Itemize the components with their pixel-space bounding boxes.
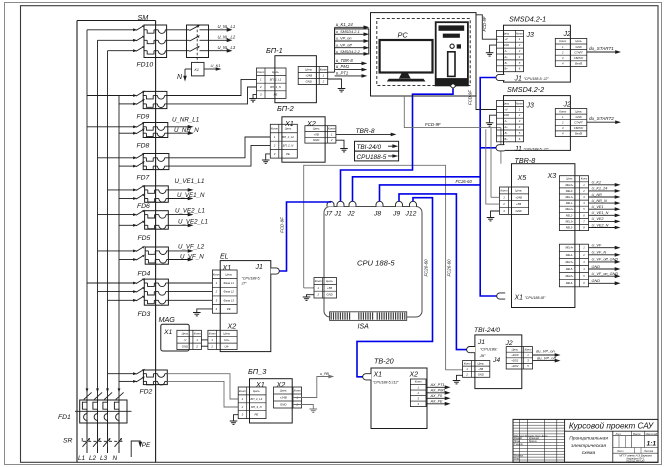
- BP-1 output table X2: [298, 67, 328, 85]
- wire du_START1: [587, 51, 617, 53]
- wire FD9 to BP-1 N: [167, 87, 257, 104]
- svg-text:Цепь: Цепь: [477, 361, 484, 365]
- svg-text:Цепь: Цепь: [225, 272, 232, 276]
- CPU GND ground: [307, 295, 315, 297]
- wire FD7 to BP-2 N: [169, 145, 270, 166]
- cable PC to TBR-8: [404, 96, 491, 197]
- svg-text:TBI-24/0: TBI-24/0: [474, 327, 500, 334]
- svg-text:U_VF_on_GND: U_VF_on_GND: [592, 272, 619, 276]
- wire FD3 L1 to EL: [168, 282, 212, 284]
- wire +5V net: [304, 165, 463, 369]
- signal u_PM1: [335, 69, 364, 71]
- svg-text:Конт: Конт: [516, 101, 524, 105]
- CPU connector J12: [410, 201, 417, 206]
- svg-text:u_SMSD4.2-1: u_SMSD4.2-1: [336, 30, 360, 34]
- svg-text:Конт: Конт: [257, 70, 265, 74]
- svg-text:REL2+: REL2+: [565, 207, 573, 211]
- wire U_NL_L2: [209, 39, 229, 41]
- svg-text:REL3+: REL3+: [565, 219, 573, 223]
- svg-text:GND: GND: [576, 115, 582, 119]
- svg-text:Цепь: Цепь: [503, 31, 510, 35]
- bus N: [118, 96, 120, 454]
- BP_3 PE ground: [234, 415, 239, 421]
- bus L1: [86, 30, 88, 453]
- svg-text:схема: схема: [582, 451, 596, 456]
- svg-text:FD3: FD3: [138, 311, 151, 318]
- svg-text:U_NR: U_NR: [592, 193, 603, 197]
- reference box CPU188-5: [355, 151, 399, 161]
- disconnect switches at FD inputs: [87, 29, 134, 31]
- svg-text:СБРОС: СБРОС: [574, 126, 584, 130]
- svg-text:X1: X1: [514, 295, 524, 302]
- svg-text:Масштаб: Масштаб: [646, 433, 658, 436]
- EL connector J1: [271, 268, 280, 274]
- svg-text:AX_F0: AX_F0: [430, 394, 443, 398]
- TB-20 connector X1: [363, 374, 371, 380]
- svg-text:TBR-8: TBR-8: [356, 128, 375, 135]
- svg-text:U_NL_L2: U_NL_L2: [218, 35, 236, 40]
- svg-text:U_K1_24: U_K1_24: [592, 187, 608, 191]
- svg-text:FC20-60: FC20-60: [424, 259, 429, 277]
- wire U_VF: [589, 247, 617, 249]
- svg-text:Конт: Конт: [294, 389, 302, 393]
- svg-text:PE: PE: [274, 93, 278, 97]
- svg-text:FD7: FD7: [137, 175, 150, 182]
- svg-text:Лит.: Лит.: [615, 433, 622, 436]
- wire U_K1: [589, 184, 617, 186]
- svg-text:u_PB: u_PB: [320, 372, 329, 376]
- svg-text:FC26-60: FC26-60: [447, 259, 452, 277]
- fuse block FD5: [145, 211, 169, 230]
- svg-text:+DO2: +DO2: [511, 364, 519, 368]
- svg-text:Фаза L3: Фаза L3: [224, 298, 235, 302]
- svg-text:REL1+: REL1+: [565, 195, 573, 199]
- svg-text:CPU188-5: CPU188-5: [357, 154, 387, 161]
- svg-text:GND: GND: [515, 209, 521, 213]
- BP-2 GND ground: [336, 140, 344, 148]
- svg-text:FCD-9F: FCD-9F: [425, 122, 441, 127]
- title right cells: [613, 435, 658, 437]
- wire +5V to TBR-8 arrow: [336, 133, 393, 135]
- wire U_VE1: [589, 208, 617, 210]
- svg-text:J1: J1: [514, 146, 523, 153]
- svg-text:GND: GND: [305, 80, 311, 84]
- svg-text:U_VE1: U_VE1: [592, 205, 604, 209]
- svg-text:X1: X1: [163, 329, 173, 336]
- wire FD9 to BP-1 L1: [167, 79, 257, 95]
- svg-text:J3: J3: [526, 103, 535, 110]
- SMSD2 GND ground: [490, 115, 497, 123]
- svg-text:2: 2: [316, 293, 319, 297]
- svg-text:A-: A-: [504, 119, 508, 123]
- wire U_VE2_N: [589, 227, 617, 229]
- svg-text:SMSD4.2-1: SMSD4.2-1: [509, 15, 546, 24]
- svg-text:Конт: Конт: [194, 332, 202, 336]
- svg-text:J4: J4: [492, 357, 500, 364]
- svg-text:N: N: [113, 455, 118, 462]
- svg-text:u_TBR-8: u_TBR-8: [336, 58, 353, 63]
- EL input table X1: [212, 270, 237, 313]
- computer PC enclosure: [371, 13, 477, 96]
- svg-text:Цепь: Цепь: [512, 347, 519, 351]
- svg-text:U_K1: U_K1: [592, 181, 602, 185]
- wire U_NR_N: [589, 202, 617, 204]
- BP-1 input table X1: [257, 68, 287, 98]
- svg-text:PE: PE: [286, 152, 290, 156]
- wire U_VE1_N: [168, 198, 189, 200]
- wire U_VE1_N: [589, 214, 617, 216]
- wire FD3 L2 to EL: [168, 291, 212, 293]
- svg-text:Цепь: Цепь: [280, 389, 287, 393]
- svg-text:U_VF: U_VF: [592, 244, 602, 248]
- signal u_SMSD4.2-1: [335, 33, 366, 35]
- signal group box: [335, 29, 369, 54]
- svg-text:+5В: +5В: [516, 202, 521, 206]
- svg-text:AX_PT1: AX_PT1: [430, 383, 445, 387]
- SMSD1 table J3: [497, 30, 524, 71]
- svg-text:U_VE2: U_VE2: [592, 217, 605, 221]
- svg-text:J7": J7": [241, 281, 248, 285]
- svg-text:Принципиальная: Принципиальная: [569, 435, 608, 441]
- svg-text:REL3-: REL3-: [566, 225, 573, 229]
- EL PE ground: [197, 309, 213, 313]
- cabinet boundary box: [76, 21, 78, 463]
- svg-text:u_PT1: u_PT1: [336, 71, 348, 76]
- svg-text:Конт: Конт: [559, 109, 567, 113]
- signal u_K1_24: [335, 26, 366, 28]
- svg-text:FCD-9F: FCD-9F: [482, 16, 487, 31]
- svg-text:Конт: Конт: [581, 177, 588, 181]
- svg-text:J9": J9": [479, 353, 486, 358]
- svg-text:REL0+: REL0+: [565, 183, 573, 187]
- TB-20 table X2: [410, 379, 426, 407]
- svg-text:J1: J1: [514, 76, 523, 83]
- svg-text:GND: GND: [280, 403, 286, 407]
- svg-text:U_VE1_L1: U_VE1_L1: [175, 178, 205, 185]
- CPU connector J2: [349, 201, 356, 206]
- svg-text:U_VF_off_GND: U_VF_off_GND: [592, 258, 619, 262]
- svg-text:U_VE2_L1: U_VE2_L1: [178, 219, 208, 226]
- svg-text:Лист: Лист: [616, 450, 623, 453]
- svg-text:u_VP_off: u_VP_off: [336, 43, 353, 47]
- svg-text:J2: J2: [563, 31, 572, 38]
- svg-text:Разраб.: Разраб.: [514, 438, 523, 440]
- wire du_VP_on: [533, 354, 557, 356]
- wire AX_PT1: [426, 386, 447, 388]
- wire U_VF_N: [168, 259, 189, 261]
- svg-text:REL2-: REL2-: [566, 213, 573, 217]
- svg-text:L1: L1: [78, 455, 86, 462]
- cable PC to SMSD4.2-2: [476, 96, 497, 110]
- svg-text:Uд+: Uд+: [224, 338, 230, 342]
- wire U_NL_L3: [209, 50, 229, 52]
- PC tower: [436, 22, 468, 85]
- svg-text:Цепь: Цепь: [305, 68, 312, 72]
- svg-text:СТАРТ: СТАРТ: [574, 120, 583, 124]
- svg-text:J1: J1: [477, 339, 485, 346]
- bus L2: [97, 40, 99, 453]
- svg-text:Цепь: Цепь: [515, 188, 522, 192]
- svg-text:REL4-: REL4-: [566, 253, 573, 257]
- svg-text:L2: L2: [89, 455, 97, 462]
- svg-text:U_K1: U_K1: [211, 63, 221, 68]
- MAG table X1: [177, 330, 202, 349]
- svg-text:Конт: Конт: [209, 332, 217, 336]
- svg-text:+DO0: +DO0: [511, 353, 519, 357]
- svg-text:GND: GND: [326, 293, 332, 297]
- svg-text:Н.контр.: Н.контр.: [514, 456, 524, 458]
- svg-text:CPU 188-5: CPU 188-5: [357, 259, 395, 268]
- svg-text:GND: GND: [182, 344, 188, 348]
- svg-text:B+: B+: [504, 137, 508, 141]
- svg-text:B+: B+: [504, 67, 508, 71]
- svg-text:Группа ИУ1-81: Группа ИУ1-81: [626, 459, 645, 463]
- wire U_VF_off_GND: [589, 261, 617, 263]
- svg-text:GND: GND: [313, 138, 319, 142]
- SMSD2 connector J1: [496, 145, 504, 151]
- svg-text:Цепь: Цепь: [503, 101, 510, 105]
- svg-text:+V: +V: [504, 37, 508, 41]
- svg-text:du_START1: du_START1: [589, 46, 614, 51]
- svg-text:J2: J2: [505, 340, 513, 347]
- wire BP-1 GND: [328, 79, 342, 89]
- PC cable connector: [450, 83, 456, 88]
- fuse block FD8: [143, 123, 168, 138]
- svg-text:+24В: +24В: [515, 195, 522, 199]
- svg-text:2: 2: [241, 405, 244, 409]
- TBI connector J1: [467, 347, 475, 353]
- X5 +5V wire: [486, 129, 500, 204]
- svg-text:"CPU188:: "CPU188:: [480, 346, 498, 351]
- svg-text:U_VE2_N: U_VE2_N: [592, 223, 609, 227]
- svg-text:U_VE2_L1: U_VE2_L1: [175, 208, 205, 215]
- bus L3: [107, 51, 109, 453]
- SMSD1 table J2: [555, 38, 587, 66]
- wire U_VF_on_GND: [589, 275, 617, 277]
- svg-text:ISA: ISA: [358, 324, 370, 331]
- wire MAG to EL 1: [201, 339, 208, 341]
- svg-text:GND: GND: [592, 279, 601, 283]
- svg-text:"CPU188:J8": "CPU188:J8": [525, 296, 547, 300]
- svg-text:Uд-: Uд-: [225, 344, 230, 348]
- svg-text:FD2: FD2: [140, 389, 153, 396]
- svg-text:X3: X3: [547, 171, 557, 180]
- svg-text:2: 2: [215, 290, 218, 294]
- TBI table J4: [463, 361, 490, 378]
- wire U_K1: [204, 68, 218, 70]
- svg-text:Цепь: Цепь: [326, 279, 333, 283]
- svg-text:TBI-24/0: TBI-24/0: [357, 144, 382, 151]
- svg-text:du_START2: du_START2: [589, 116, 614, 121]
- svg-text:Конт: Конт: [500, 188, 508, 192]
- wire AX_FE: [426, 403, 447, 405]
- svg-text:Цепь: Цепь: [575, 39, 582, 43]
- svg-text:GND: GND: [576, 45, 582, 49]
- BP_3 input table X1: [238, 387, 266, 419]
- svg-text:u_VP_on: u_VP_on: [336, 37, 352, 41]
- svg-text:"CPU188-5: J2": "CPU188-5: J2": [524, 77, 550, 81]
- fuse block FD2: [143, 370, 167, 385]
- cable FC26-60 CPU J9 to TBI J1: [399, 194, 467, 350]
- title main text: [565, 430, 658, 432]
- svg-text:FC26-60: FC26-60: [456, 179, 473, 184]
- svg-text:U_VF_N: U_VF_N: [180, 254, 204, 261]
- svg-text:du_VP_off: du_VP_off: [537, 355, 557, 360]
- signal u_TBR-8: [335, 62, 364, 64]
- svg-text:X2: X2: [409, 372, 419, 379]
- svg-text:Цепь: Цепь: [285, 127, 292, 131]
- svg-text:FCD-9F: FCD-9F: [468, 90, 473, 105]
- svg-text:Курсовой проект САУ: Курсовой проект САУ: [569, 422, 654, 431]
- svg-text:J1: J1: [334, 211, 342, 218]
- svg-text:X1: X1: [255, 380, 265, 389]
- svg-text:REL6-: REL6-: [566, 281, 573, 285]
- svg-text:REL0-: REL0-: [566, 189, 573, 193]
- wire U_VE2_L1 a: [168, 214, 189, 216]
- svg-text:БП_1_L1: БП_1_L1: [270, 77, 282, 81]
- svg-text:J2: J2: [347, 211, 355, 218]
- svg-text:Конт: Конт: [525, 347, 533, 351]
- svg-text:K1: K1: [195, 68, 199, 72]
- svg-text:Конт: Конт: [464, 361, 472, 365]
- svg-text:Конт: Конт: [213, 272, 221, 276]
- svg-text:U_NR_L1: U_NR_L1: [172, 117, 199, 124]
- cable FC26-60 CPU J8 to TBR-8 X1: [380, 185, 498, 296]
- svg-text:SMSD4.2-2: SMSD4.2-2: [507, 85, 544, 94]
- svg-text:БП_2_N: БП_2_N: [283, 143, 295, 147]
- svg-text:БП_3_N: БП_3_N: [251, 405, 263, 409]
- X5 GND ground: [491, 211, 500, 218]
- wire U_NR_L1: [168, 126, 190, 128]
- TBI table J2: [506, 347, 532, 369]
- svg-text:2: 2: [502, 202, 505, 206]
- svg-text:БП-1: БП-1: [266, 46, 283, 55]
- CPU connector J1: [337, 201, 344, 206]
- svg-text:СТАРТ: СТАРТ: [574, 50, 583, 54]
- wire U_VF_N: [589, 254, 617, 256]
- svg-text:Брагин: Брагин: [529, 441, 537, 443]
- ISA connector: [330, 312, 407, 321]
- svg-text:J8: J8: [373, 211, 381, 218]
- svg-text:X1: X1: [222, 263, 232, 272]
- svg-text:GND: GND: [592, 265, 601, 269]
- wire AX_PM1: [426, 392, 447, 394]
- svg-text:EL: EL: [220, 254, 229, 261]
- svg-text:FD10: FD10: [137, 62, 154, 69]
- svg-text:Конт: Конт: [320, 68, 328, 72]
- svg-text:SR: SR: [63, 438, 73, 445]
- SMSD2 table J2: [555, 109, 587, 137]
- svg-text:FCD-9F: FCD-9F: [279, 217, 284, 233]
- svg-text:A+: A+: [503, 125, 508, 129]
- svg-text:Конт: Конт: [315, 279, 323, 283]
- wire BP_3 +24V u_PB: [293, 377, 331, 398]
- SMSD1 connector J1: [496, 74, 504, 80]
- PC monitor: [380, 40, 433, 73]
- wire BP-1 +24V riser: [334, 27, 336, 72]
- fuse block FD10: [144, 25, 167, 58]
- svg-text:U_NR_N: U_NR_N: [174, 127, 199, 134]
- svg-text:+5В: +5В: [314, 132, 319, 136]
- wire GND: [589, 268, 617, 270]
- svg-text:REL4+: REL4+: [565, 246, 573, 250]
- fuse block FD7: [143, 154, 169, 170]
- svg-text:A-: A-: [504, 49, 508, 53]
- svg-text:GND: GND: [478, 372, 484, 376]
- wire FD7 to BP-2 L2: [169, 137, 270, 158]
- svg-text:1:1: 1:1: [647, 441, 657, 448]
- BP_3 output table X2: [274, 387, 302, 408]
- svg-text:+DO1: +DO1: [511, 359, 519, 363]
- TBR-8 table X3 group1: [559, 176, 588, 231]
- svg-text:AX_FE: AX_FE: [430, 399, 443, 403]
- SMSD1 GND ground: [490, 45, 497, 53]
- svg-text:B-: B-: [505, 61, 508, 65]
- reference box TBI-24/0: [355, 141, 399, 151]
- svg-text:u_PM1: u_PM1: [336, 64, 349, 69]
- wire MAG to EL 2: [201, 345, 208, 347]
- TBR-8 table X3 group2: [559, 244, 588, 287]
- wire U_K1_24: [589, 190, 617, 192]
- signal u_PT1: [335, 75, 364, 77]
- BP-2 input table X1: [270, 124, 297, 158]
- svg-text:Изм Лист № докум. Подп. Дата: Изм Лист № докум. Подп. Дата: [514, 434, 548, 437]
- BP-2 output table X2: [305, 126, 336, 143]
- fuse block FD4: [145, 247, 168, 264]
- svg-text:J2: J2: [563, 102, 572, 109]
- svg-text:Т.контр.: Т.контр.: [514, 444, 524, 446]
- svg-text:J7: J7: [324, 211, 332, 218]
- wire U_VE2_L1 b: [168, 224, 189, 226]
- svg-text:TB-20: TB-20: [374, 357, 394, 366]
- cable FCD-9F EL J1 to CPU J7: [280, 201, 331, 271]
- svg-text:Вкл/В: Вкл/В: [575, 62, 582, 66]
- fuse block FD6: [145, 186, 169, 202]
- svg-text:GND: GND: [503, 113, 509, 117]
- wire U_VE1_L1: [168, 189, 189, 191]
- svg-text:Конт: Конт: [271, 127, 279, 131]
- fuse block FD3: [144, 279, 168, 305]
- svg-text:Цепь: Цепь: [575, 109, 582, 113]
- wire du_VP_off: [533, 360, 557, 362]
- wire FD2 to BP_3 L3: [167, 374, 238, 399]
- svg-text:U_VE1_N: U_VE1_N: [177, 192, 205, 199]
- svg-text:FD1: FD1: [58, 414, 71, 421]
- svg-text:2: 2: [322, 80, 325, 84]
- wire U_NR_N: [168, 132, 190, 134]
- svg-text:AX_PM1: AX_PM1: [430, 388, 446, 392]
- BP_3 GND ground: [293, 405, 313, 410]
- CPU power table: [314, 278, 337, 298]
- svg-text:REL5-: REL5-: [566, 267, 573, 271]
- svg-text:2: 2: [330, 138, 333, 142]
- svg-text:Утв.: Утв.: [514, 459, 520, 461]
- svg-text:U_VF_L2: U_VF_L2: [178, 244, 205, 251]
- svg-text:FD4: FD4: [138, 271, 151, 278]
- svg-text:Листов: Листов: [643, 450, 654, 453]
- svg-text:PE: PE: [254, 413, 258, 417]
- svg-text:+24В: +24В: [305, 74, 312, 78]
- svg-text:FD6: FD6: [137, 203, 150, 210]
- circuit breaker FD1: [80, 400, 127, 423]
- svg-text:U_VF_N: U_VF_N: [592, 251, 607, 255]
- svg-text:REL6+: REL6+: [565, 274, 573, 278]
- svg-text:Цепь: Цепь: [253, 389, 260, 393]
- svg-text:du_VP_on: du_VP_on: [536, 349, 555, 354]
- CPU connector J8: [376, 201, 383, 206]
- svg-text:REL1-: REL1-: [566, 201, 573, 205]
- svg-text:PC: PC: [398, 31, 409, 40]
